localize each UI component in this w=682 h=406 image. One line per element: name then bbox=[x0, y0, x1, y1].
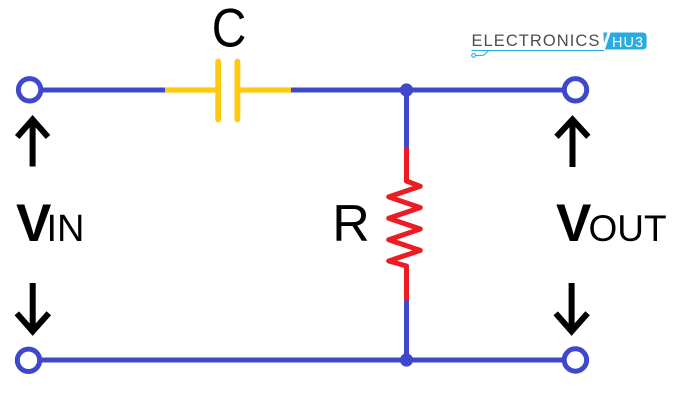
terminal bottom-left bbox=[17, 349, 39, 371]
label VOUT bbox=[556, 194, 667, 253]
svg-text:R: R bbox=[332, 195, 370, 253]
label VIN bbox=[16, 194, 85, 253]
arrow up (Vout +) bbox=[557, 120, 589, 168]
logo Electronics Hub bbox=[472, 32, 647, 57]
wire bottom (return rail) bbox=[40, 358, 564, 363]
svg-text:V: V bbox=[556, 194, 591, 253]
junction node bottom bbox=[400, 353, 413, 366]
wire top (Vin to Vout top rail) bbox=[42, 88, 564, 93]
junction node top bbox=[400, 83, 413, 96]
terminal bottom-right bbox=[564, 349, 586, 371]
svg-text:IN: IN bbox=[47, 208, 85, 250]
svg-text:C: C bbox=[212, 0, 247, 58]
label R bbox=[332, 195, 370, 253]
arrow down (Vin -) bbox=[17, 283, 49, 331]
svg-text:ELECTRONICS: ELECTRONICS bbox=[472, 32, 601, 50]
wire vertical (junction to junction through R) bbox=[404, 90, 409, 360]
label C bbox=[212, 0, 247, 58]
terminal top-right bbox=[564, 79, 586, 101]
arrow up (Vin +) bbox=[17, 120, 48, 167]
svg-text:OUT: OUT bbox=[589, 208, 667, 249]
terminal top-left bbox=[18, 79, 40, 101]
resistor R (shunt, red zigzag) bbox=[389, 148, 421, 301]
arrow down (Vout -) bbox=[556, 283, 588, 331]
capacitor C (series, gold) bbox=[165, 62, 291, 120]
svg-text:HU3: HU3 bbox=[612, 35, 644, 51]
